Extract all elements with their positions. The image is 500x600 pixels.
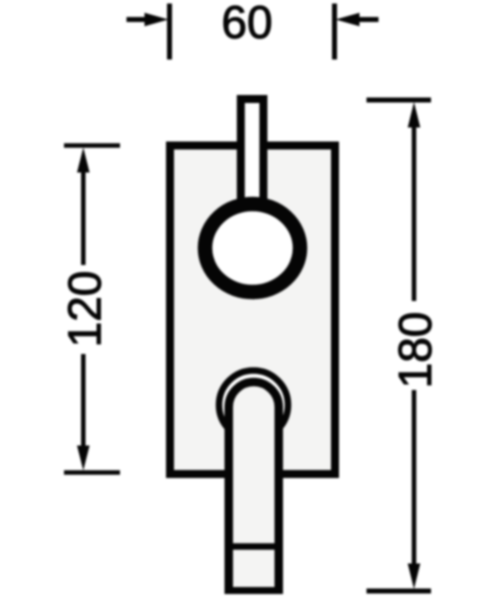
dim180 top tick	[367, 98, 432, 103]
dim60 left tick	[167, 4, 172, 60]
svg-text:60: 60	[221, 0, 272, 48]
dim180 line upper	[412, 120, 417, 301]
dim60 left arrowhead	[145, 13, 169, 26]
dim120 top tick	[64, 143, 120, 148]
dim60 right arrow tail	[354, 17, 379, 22]
dim180 bottom tick	[367, 589, 432, 594]
dim120 up arrowhead	[77, 148, 90, 173]
dim120 down arrowhead	[77, 446, 90, 471]
spout tube	[229, 382, 279, 594]
dim180 down arrowhead	[408, 564, 421, 590]
dim120 line upper	[81, 165, 86, 265]
handle ring	[205, 204, 300, 292]
dim180 line lower	[412, 390, 417, 570]
dim180 up arrowhead	[408, 102, 421, 128]
dim120 line lower	[81, 354, 86, 453]
spout escutcheon circle	[219, 371, 288, 440]
handle lever	[241, 99, 264, 211]
dim60 right arrowhead	[336, 13, 360, 26]
aerator joint line	[226, 543, 282, 550]
svg-text:180: 180	[389, 312, 441, 389]
spout bottom cap	[225, 587, 284, 594]
dim60 right tick	[332, 4, 337, 60]
wall plate	[170, 146, 335, 475]
svg-text:120: 120	[58, 271, 110, 348]
dim120 bottom tick	[64, 470, 120, 475]
dim60 left arrow tail	[127, 17, 151, 22]
